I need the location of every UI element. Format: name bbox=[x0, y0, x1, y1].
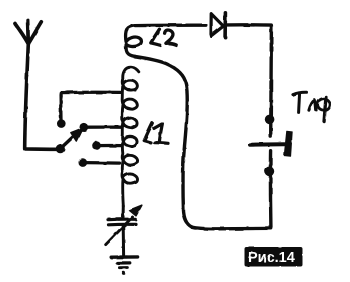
switch arm bbox=[61, 134, 77, 149]
variable capacitor arrowhead bbox=[129, 205, 141, 216]
wire L1 bottom to capacitor bbox=[122, 206, 125, 218]
wire tap1 (top tap to contact A) bbox=[61, 92, 121, 122]
diode D1 cathode bar bbox=[223, 13, 227, 37]
label Л1 bbox=[144, 123, 168, 143]
switch contact dot A bbox=[57, 119, 66, 128]
wire tap2 bbox=[84, 125, 122, 128]
figure label Рис.14 bbox=[245, 247, 303, 267]
ground bbox=[111, 257, 137, 275]
wire diode to right corner and down to Тлф bbox=[227, 25, 271, 137]
wire capacitor to ground bbox=[122, 225, 125, 255]
junction dot lower bbox=[265, 167, 275, 177]
switch contact dot D bbox=[79, 158, 88, 167]
telephone Тлф element line bbox=[250, 142, 284, 147]
switch contact dot B bbox=[80, 123, 89, 132]
telephone Тлф element bar bbox=[284, 131, 292, 156]
switch arm arrowhead bbox=[71, 128, 84, 142]
diode D1 triangle bbox=[211, 14, 223, 36]
label Тлф bbox=[293, 92, 330, 121]
variable capacitor C1 top plate bbox=[108, 218, 135, 222]
switch contact dot C bbox=[92, 141, 101, 150]
wire tap3 bbox=[97, 144, 123, 147]
wire antenna to switch pivot bbox=[25, 44, 60, 150]
coil L2 bbox=[126, 25, 206, 56]
variable capacitor C1 bottom plate bbox=[109, 223, 137, 227]
svg-text:Рис.14: Рис.14 bbox=[248, 250, 295, 266]
antenna bbox=[15, 20, 41, 44]
wire tap4 bbox=[83, 161, 120, 165]
variable capacitor arrow bbox=[106, 217, 133, 245]
label Л2 bbox=[151, 29, 176, 45]
switch pivot junction bbox=[56, 144, 65, 153]
junction dot upper (telephone top) bbox=[265, 115, 275, 125]
bottom rail wire bbox=[192, 227, 272, 229]
wire L2 to bottom rail (sweep) bbox=[135, 56, 192, 226]
wire Тлф down to rail bbox=[269, 151, 273, 228]
coil L1 bbox=[122, 67, 139, 206]
